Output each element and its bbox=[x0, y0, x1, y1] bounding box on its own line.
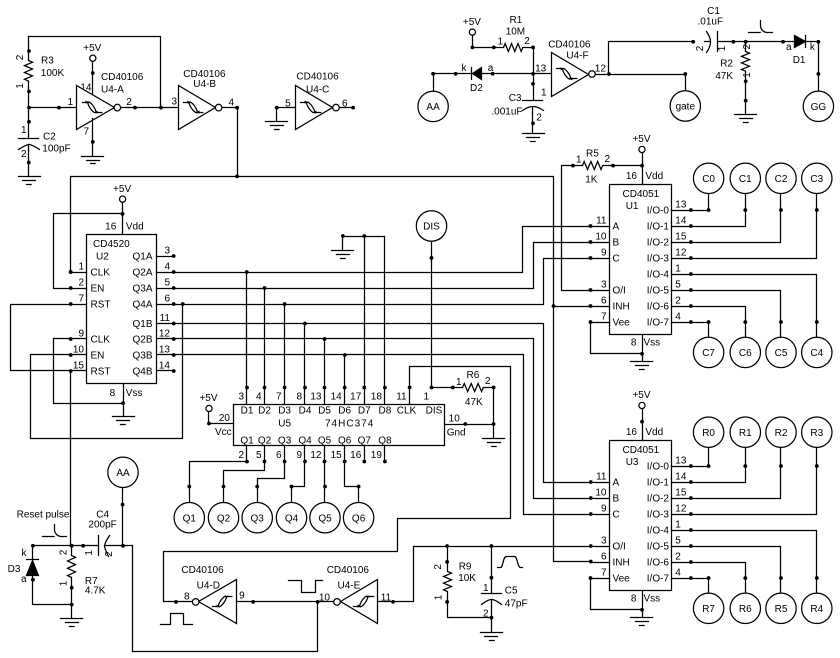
svg-text:19: 19 bbox=[371, 450, 383, 461]
wire O/I net down to C5 bbox=[491, 547, 493, 594]
wire Q1 to terminal bbox=[190, 462, 247, 503]
svg-text:Q3: Q3 bbox=[278, 435, 292, 446]
svg-text:C4: C4 bbox=[810, 348, 823, 359]
svg-text:47K: 47K bbox=[465, 397, 483, 408]
svg-text:10: 10 bbox=[595, 232, 607, 243]
wire U1 pin Vee stub bbox=[591, 322, 610, 324]
+5V supply for U2 Vdd bbox=[113, 184, 131, 202]
wire U5 D3 input column bbox=[284, 305, 286, 405]
svg-text:5: 5 bbox=[675, 280, 681, 291]
wire U1 I/O-5 stub bbox=[672, 290, 691, 292]
wire U3 Vee to ground bbox=[591, 579, 643, 610]
svg-text:2: 2 bbox=[21, 149, 27, 160]
wire node down to C3 bbox=[533, 74, 535, 101]
svg-text:GG: GG bbox=[811, 102, 827, 113]
wire U2 Q3A stub bbox=[157, 288, 174, 290]
wire U5 Q8 output stub bbox=[384, 446, 386, 462]
svg-text:12: 12 bbox=[675, 248, 687, 259]
svg-text:4: 4 bbox=[675, 568, 681, 579]
wire DIS terminal to U5 DIS pin bbox=[431, 242, 433, 388]
wire U5 Q7 output stub bbox=[364, 446, 366, 462]
terminal circle Q6 bbox=[343, 503, 373, 533]
svg-text:CD40106: CD40106 bbox=[548, 39, 591, 50]
svg-text:D4: D4 bbox=[299, 405, 312, 416]
wire U5 D5 input column bbox=[324, 339, 326, 405]
wire Q6 to terminal bbox=[345, 462, 359, 503]
wire U1 I/O-2 stub bbox=[672, 242, 691, 244]
wire U1 I/O-0 to terminal bbox=[691, 210, 709, 212]
svg-text:C7: C7 bbox=[702, 348, 715, 359]
wire U3 I/O-1 stub bbox=[672, 482, 691, 484]
svg-text:D2: D2 bbox=[258, 405, 271, 416]
svg-text:14: 14 bbox=[331, 392, 343, 403]
svg-text:11: 11 bbox=[596, 216, 607, 227]
terminal circle Q1 bbox=[174, 503, 204, 533]
svg-text:10: 10 bbox=[319, 593, 331, 604]
wire U1 Vee to ground bbox=[591, 323, 643, 354]
svg-text:2: 2 bbox=[695, 45, 706, 51]
wire U2 Q1A stub bbox=[157, 256, 174, 258]
svg-text:.01uF: .01uF bbox=[698, 17, 724, 28]
wire U1 pin C stub bbox=[591, 258, 610, 260]
svg-text:I/O-5: I/O-5 bbox=[647, 542, 670, 553]
wire +5V to R1 bbox=[473, 36, 494, 48]
svg-text:1: 1 bbox=[675, 264, 681, 275]
wire into U4-C pin 5 bbox=[277, 107, 296, 109]
svg-text:I/O-1: I/O-1 bbox=[647, 478, 670, 489]
wire U4-A pin 7 to ground bbox=[92, 119, 94, 157]
svg-text:1: 1 bbox=[434, 594, 445, 600]
svg-text:1: 1 bbox=[541, 88, 547, 99]
wire U4-C output stub bbox=[340, 107, 354, 109]
svg-text:1: 1 bbox=[21, 125, 27, 136]
svg-text:3: 3 bbox=[601, 280, 607, 291]
wire U4-B output down to clock bus bbox=[223, 108, 238, 177]
svg-text:I/O-3: I/O-3 bbox=[647, 510, 670, 521]
svg-text:D5: D5 bbox=[318, 405, 331, 416]
ground below U2 bbox=[113, 417, 135, 425]
svg-text:2: 2 bbox=[483, 609, 489, 620]
terminal circle Q4 bbox=[276, 503, 306, 533]
svg-text:Q4: Q4 bbox=[298, 435, 312, 446]
svg-text:16: 16 bbox=[350, 450, 362, 461]
svg-text:13: 13 bbox=[310, 392, 322, 403]
wire D3 anode to R7 bottom bbox=[33, 576, 72, 605]
terminal circle C5 bbox=[766, 337, 796, 367]
wire U1 Vdd bbox=[642, 153, 644, 185]
ground below U4-A pin 7 bbox=[82, 157, 104, 164]
wire U5 D4 input column bbox=[304, 324, 306, 405]
svg-text:R5: R5 bbox=[586, 149, 599, 160]
svg-text:D3: D3 bbox=[278, 405, 291, 416]
terminal circle C4 bbox=[802, 337, 832, 367]
svg-text:Vdd: Vdd bbox=[645, 427, 663, 438]
reset pulse waveform symbol bbox=[43, 525, 67, 537]
svg-text:C5: C5 bbox=[505, 586, 518, 597]
svg-text:I/O-3: I/O-3 bbox=[647, 254, 670, 265]
wire D3 cathode lead bbox=[32, 546, 34, 560]
svg-text:+5V: +5V bbox=[632, 390, 650, 401]
wire U3 I/O-6 to terminal bbox=[691, 563, 746, 594]
wire R6 to ground node bbox=[493, 388, 495, 425]
wire U3 pin C stub bbox=[591, 514, 610, 516]
wire U5 Q5 output stub bbox=[324, 446, 326, 462]
svg-text:I/O-6: I/O-6 bbox=[647, 302, 670, 313]
wire U2 Q2B stub bbox=[157, 338, 174, 340]
wire U2 Q3B stub bbox=[157, 354, 174, 356]
wire U5 Q4 output stub bbox=[304, 446, 306, 462]
svg-text:1: 1 bbox=[675, 520, 681, 531]
ground below U1 bbox=[631, 362, 653, 370]
svg-text:16: 16 bbox=[626, 427, 638, 438]
svg-text:U3: U3 bbox=[626, 457, 639, 468]
svg-text:C5: C5 bbox=[775, 348, 788, 359]
wire U2 pin 15 stub bbox=[71, 370, 87, 372]
svg-text:3: 3 bbox=[171, 97, 177, 108]
terminal circle C3 bbox=[802, 163, 832, 193]
wire Q3B to U3 C bbox=[174, 355, 591, 515]
wire U5 Vcc pin 20 bbox=[209, 412, 234, 424]
wire U2 Q2A stub bbox=[157, 272, 174, 274]
wire U3 I/O-6 stub bbox=[672, 562, 691, 564]
svg-text:100K: 100K bbox=[41, 68, 65, 79]
wire U1 I/O-1 to terminal bbox=[691, 194, 746, 227]
svg-text:10: 10 bbox=[449, 414, 461, 425]
wire U4-E output to U3 O/I net bbox=[378, 547, 591, 602]
wire D7/D8 ground rail bbox=[343, 236, 385, 238]
svg-text:4: 4 bbox=[164, 262, 170, 273]
wire U3 I/O-7 stub bbox=[672, 578, 691, 580]
wire U1 I/O-4 stub bbox=[672, 274, 691, 276]
wire Q3 to terminal bbox=[258, 462, 285, 503]
wire R1 to U4-F input node bbox=[533, 48, 535, 74]
svg-text:a: a bbox=[21, 574, 27, 585]
terminal circle Q3 bbox=[242, 503, 272, 533]
svg-text:8: 8 bbox=[296, 392, 302, 403]
svg-text:2: 2 bbox=[605, 154, 611, 165]
wire Q5 to terminal bbox=[324, 462, 326, 503]
resistor R3 bbox=[25, 51, 33, 92]
svg-text:20: 20 bbox=[219, 413, 231, 424]
wire U1 pin O/I stub bbox=[591, 290, 610, 292]
svg-text:R5: R5 bbox=[775, 604, 788, 615]
svg-text:14: 14 bbox=[675, 472, 687, 483]
svg-text:Vdd: Vdd bbox=[645, 171, 663, 182]
svg-text:CLK: CLK bbox=[397, 405, 417, 416]
svg-text:D6: D6 bbox=[338, 405, 351, 416]
svg-text:11: 11 bbox=[396, 392, 407, 403]
svg-text:5: 5 bbox=[675, 536, 681, 547]
svg-text:1: 1 bbox=[423, 392, 429, 403]
wire U2 Vdd bbox=[122, 203, 124, 235]
svg-text:AA: AA bbox=[116, 468, 130, 479]
wire U2 CLK pin9 to ground rail bbox=[54, 339, 124, 404]
wire U2 EN pin2 to +5V bbox=[54, 214, 123, 289]
resistor R2 bbox=[742, 42, 750, 82]
svg-text:1: 1 bbox=[742, 72, 753, 78]
wire U1 I/O-1 stub bbox=[672, 226, 691, 228]
wire U4-F output up to C1 bbox=[609, 42, 694, 75]
svg-text:1: 1 bbox=[84, 550, 95, 556]
terminal circle Q5 bbox=[310, 503, 340, 533]
ground below R2 bbox=[735, 115, 757, 123]
svg-text:16: 16 bbox=[105, 222, 117, 233]
wire U3 I/O-7 to terminal bbox=[691, 578, 709, 580]
svg-text:+5V: +5V bbox=[199, 393, 217, 404]
svg-text:+5V: +5V bbox=[113, 184, 131, 195]
svg-text:11: 11 bbox=[596, 472, 607, 483]
terminal circle R0 bbox=[693, 417, 723, 447]
wire feedback from U4-A output to R3 top bbox=[29, 37, 161, 108]
svg-text:10: 10 bbox=[595, 488, 607, 499]
svg-text:Q6: Q6 bbox=[352, 513, 366, 524]
wire U1 pin A stub bbox=[591, 226, 610, 228]
svg-text:10K: 10K bbox=[458, 573, 476, 584]
svg-text:I/O-0: I/O-0 bbox=[647, 462, 670, 473]
svg-text:3: 3 bbox=[164, 246, 170, 257]
wire AA terminal to D2 bbox=[434, 74, 472, 91]
svg-text:Vss: Vss bbox=[126, 388, 143, 399]
svg-text:CD40106: CD40106 bbox=[181, 565, 224, 576]
wire U4-A out to U4-B input bbox=[161, 107, 179, 109]
wire U1 I/O-3 stub bbox=[672, 258, 691, 260]
wire U1 pin INH stub bbox=[591, 306, 610, 308]
svg-text:CD4051: CD4051 bbox=[623, 445, 660, 456]
svg-text:3: 3 bbox=[601, 536, 607, 547]
terminal circle R2 bbox=[766, 417, 796, 447]
svg-text:14: 14 bbox=[675, 216, 687, 227]
svg-text:8: 8 bbox=[631, 338, 637, 349]
svg-text:2: 2 bbox=[15, 54, 26, 60]
svg-text:6: 6 bbox=[164, 294, 170, 305]
svg-text:C2: C2 bbox=[43, 132, 56, 143]
svg-text:6: 6 bbox=[276, 450, 282, 461]
+5V supply for U4-A pin 14 bbox=[83, 43, 101, 61]
svg-text:Vee: Vee bbox=[613, 574, 631, 585]
svg-text:U4-A: U4-A bbox=[101, 84, 124, 95]
wire to ground bbox=[493, 425, 495, 439]
wire O/I net down to R9 bbox=[447, 547, 449, 562]
wire U3 pin Vee stub bbox=[591, 578, 610, 580]
svg-text:C3: C3 bbox=[509, 93, 522, 104]
svg-text:I/O-4: I/O-4 bbox=[647, 526, 670, 537]
svg-text:a: a bbox=[786, 42, 792, 53]
svg-text:47K: 47K bbox=[715, 71, 733, 82]
wire C7 terminal lead bbox=[708, 323, 710, 338]
svg-text:Q3: Q3 bbox=[251, 513, 265, 524]
wire U3 Vss bbox=[642, 591, 644, 618]
svg-text:2: 2 bbox=[104, 551, 115, 557]
svg-text:CD4051: CD4051 bbox=[623, 189, 660, 200]
IC U5 74HC374 latch bbox=[234, 405, 445, 446]
svg-text:Q3B: Q3B bbox=[132, 351, 152, 362]
inverter U4-E (CD40106) bbox=[341, 580, 378, 624]
wire C2 bottom lead to ground bbox=[28, 151, 30, 177]
resistor R6 bbox=[453, 384, 494, 392]
+5V supply for U1 Vdd bbox=[632, 134, 650, 152]
wire U3 I/O-4 to terminal bbox=[691, 531, 817, 594]
terminal circle R6 bbox=[730, 593, 760, 623]
svg-text:10M: 10M bbox=[506, 27, 525, 38]
wire U1 I/O-0 stub bbox=[672, 210, 691, 212]
svg-text:9: 9 bbox=[601, 504, 607, 515]
wire DIS node to R6 bbox=[432, 387, 453, 389]
svg-text:U5: U5 bbox=[278, 419, 291, 430]
terminal circle DIS bbox=[416, 211, 446, 241]
svg-text:CLK: CLK bbox=[91, 335, 111, 346]
wire U1 Vss bbox=[642, 335, 644, 362]
svg-text:15: 15 bbox=[675, 232, 687, 243]
svg-text:Q5: Q5 bbox=[318, 513, 332, 524]
resistor R1 bbox=[494, 44, 534, 52]
svg-text:D1: D1 bbox=[793, 55, 806, 66]
svg-text:R3: R3 bbox=[41, 56, 54, 67]
wire R7 to ground bbox=[71, 588, 73, 619]
waveform inverted pulse at U4-E input bbox=[289, 581, 323, 593]
svg-text:CLK: CLK bbox=[91, 268, 111, 279]
wire R5 to U1 O/I bbox=[562, 166, 591, 291]
svg-text:11: 11 bbox=[160, 313, 171, 324]
svg-text:16: 16 bbox=[626, 171, 638, 182]
svg-text:Q1: Q1 bbox=[240, 435, 254, 446]
svg-text:1: 1 bbox=[78, 262, 84, 273]
diode D1 bbox=[795, 36, 806, 48]
wire clock bus: U4-B out to U2 CLK and INH of U1/U3 bbox=[71, 177, 591, 562]
wire R2 to ground bbox=[745, 82, 747, 115]
svg-text:R0: R0 bbox=[702, 428, 715, 439]
wire U2 Vss to ground bbox=[123, 384, 125, 417]
terminal circle R4 bbox=[802, 593, 832, 623]
wire U2 Q4A stub bbox=[157, 304, 174, 306]
svg-text:Q2A: Q2A bbox=[132, 268, 152, 279]
wire R7 terminal lead bbox=[708, 579, 710, 594]
svg-text:8: 8 bbox=[631, 594, 637, 605]
svg-text:Q2: Q2 bbox=[258, 435, 272, 446]
wire U3 I/O-3 to terminal bbox=[691, 448, 817, 515]
svg-text:13: 13 bbox=[159, 345, 171, 356]
wire U2 RST net down to reset circuit bbox=[70, 371, 72, 546]
svg-text:1K: 1K bbox=[585, 174, 598, 185]
wire ground rail lead bbox=[342, 237, 344, 251]
svg-text:RST: RST bbox=[91, 367, 111, 378]
svg-text:I/O-7: I/O-7 bbox=[647, 574, 670, 585]
wire U5 CLK pin 11 net to U4-D input bbox=[164, 367, 511, 602]
IC U2 CD4520 counter bbox=[87, 235, 157, 384]
wire to U1 INH pin bbox=[554, 306, 591, 308]
wire R0 terminal lead bbox=[708, 448, 710, 467]
terminal circle C2 bbox=[766, 163, 796, 193]
svg-text:Q3A: Q3A bbox=[132, 284, 152, 295]
wire D2 anode lead bbox=[482, 73, 493, 75]
svg-text:Q4A: Q4A bbox=[132, 300, 152, 311]
svg-text:12: 12 bbox=[595, 64, 607, 75]
svg-text:2: 2 bbox=[536, 113, 542, 124]
svg-text:U4-B: U4-B bbox=[193, 79, 216, 90]
terminal circle GG bbox=[803, 91, 833, 121]
terminal circle R3 bbox=[802, 417, 832, 447]
inverter U4-B (CD40106) bbox=[179, 86, 216, 130]
svg-text:8: 8 bbox=[110, 388, 116, 399]
svg-text:Q6: Q6 bbox=[338, 435, 352, 446]
svg-text:I/O-5: I/O-5 bbox=[647, 286, 670, 297]
svg-text:13: 13 bbox=[675, 200, 687, 211]
svg-text:CD4520: CD4520 bbox=[93, 239, 130, 250]
svg-text:8: 8 bbox=[184, 592, 190, 603]
wire U3 I/O-2 to terminal bbox=[691, 448, 781, 499]
capacitor C3 bbox=[523, 101, 544, 113]
svg-text:I/O-1: I/O-1 bbox=[647, 222, 670, 233]
svg-text:+5V: +5V bbox=[83, 43, 101, 54]
inverter U4-F (CD40106) bbox=[552, 53, 589, 97]
svg-text:C6: C6 bbox=[739, 348, 752, 359]
svg-text:D3: D3 bbox=[8, 564, 21, 575]
wire gate terminal lead bbox=[685, 75, 687, 91]
terminal circle C1 bbox=[730, 163, 760, 193]
svg-text:I/O-2: I/O-2 bbox=[647, 494, 670, 505]
svg-text:5: 5 bbox=[285, 99, 291, 110]
svg-text:EN: EN bbox=[91, 284, 105, 295]
svg-text:R2: R2 bbox=[720, 58, 733, 69]
wire C1 to R2 node bbox=[718, 41, 734, 43]
wire U3 pin B stub bbox=[591, 498, 610, 500]
svg-text:12: 12 bbox=[310, 450, 322, 461]
wire U5 Q1 output stub bbox=[246, 446, 248, 462]
svg-text:Vee: Vee bbox=[613, 318, 631, 329]
wire Q1B to U3 A bbox=[174, 324, 591, 483]
svg-text:1: 1 bbox=[483, 583, 489, 594]
svg-text:2: 2 bbox=[238, 450, 244, 461]
svg-text:7: 7 bbox=[78, 294, 84, 305]
wire U5 Q6 output stub bbox=[344, 446, 346, 462]
svg-text:2: 2 bbox=[433, 564, 444, 570]
wire U3 pin A stub bbox=[591, 482, 610, 484]
wire Q2A to U1 A bbox=[174, 227, 591, 273]
svg-text:2: 2 bbox=[485, 376, 491, 387]
svg-text:DIS: DIS bbox=[426, 405, 443, 416]
svg-text:9: 9 bbox=[601, 248, 607, 259]
junction U5 DIS pin bbox=[430, 386, 434, 390]
inverter U4-C (CD40106) bbox=[296, 86, 333, 130]
wire D2 to U4-F pin 13 bbox=[493, 73, 552, 75]
wire C4 to AA node bbox=[111, 545, 123, 547]
wire U1 I/O-5 to terminal bbox=[691, 291, 781, 338]
svg-text:U4-E: U4-E bbox=[338, 580, 361, 591]
resistor R7 bbox=[68, 546, 76, 588]
svg-text:2: 2 bbox=[742, 43, 753, 49]
svg-text:D7: D7 bbox=[358, 405, 371, 416]
wire U2 EN pin10 cascade from Q4A bbox=[31, 305, 183, 439]
diode D2 bbox=[472, 68, 482, 80]
waveform square pulse at U4-D input bbox=[161, 614, 193, 625]
wire R5 to +5V rail bbox=[614, 165, 643, 167]
svg-text:2: 2 bbox=[675, 296, 681, 307]
svg-text:I/O-7: I/O-7 bbox=[647, 318, 670, 329]
wire GG lead bbox=[818, 74, 820, 91]
wire U3 I/O-0 to terminal bbox=[691, 466, 709, 468]
wire D1 anode lead bbox=[784, 41, 795, 43]
svg-text:EN: EN bbox=[91, 351, 105, 362]
svg-text:Q8: Q8 bbox=[378, 435, 392, 446]
svg-text:D1: D1 bbox=[241, 405, 254, 416]
svg-text:18: 18 bbox=[371, 392, 383, 403]
svg-text:B: B bbox=[613, 238, 620, 249]
svg-text:INH: INH bbox=[613, 302, 630, 313]
svg-text:D8: D8 bbox=[379, 405, 392, 416]
wire U1 I/O-2 to terminal bbox=[691, 194, 781, 243]
svg-text:15: 15 bbox=[73, 361, 85, 372]
wire U3 Vdd bbox=[642, 409, 644, 441]
wire U4-A output bbox=[122, 107, 161, 109]
